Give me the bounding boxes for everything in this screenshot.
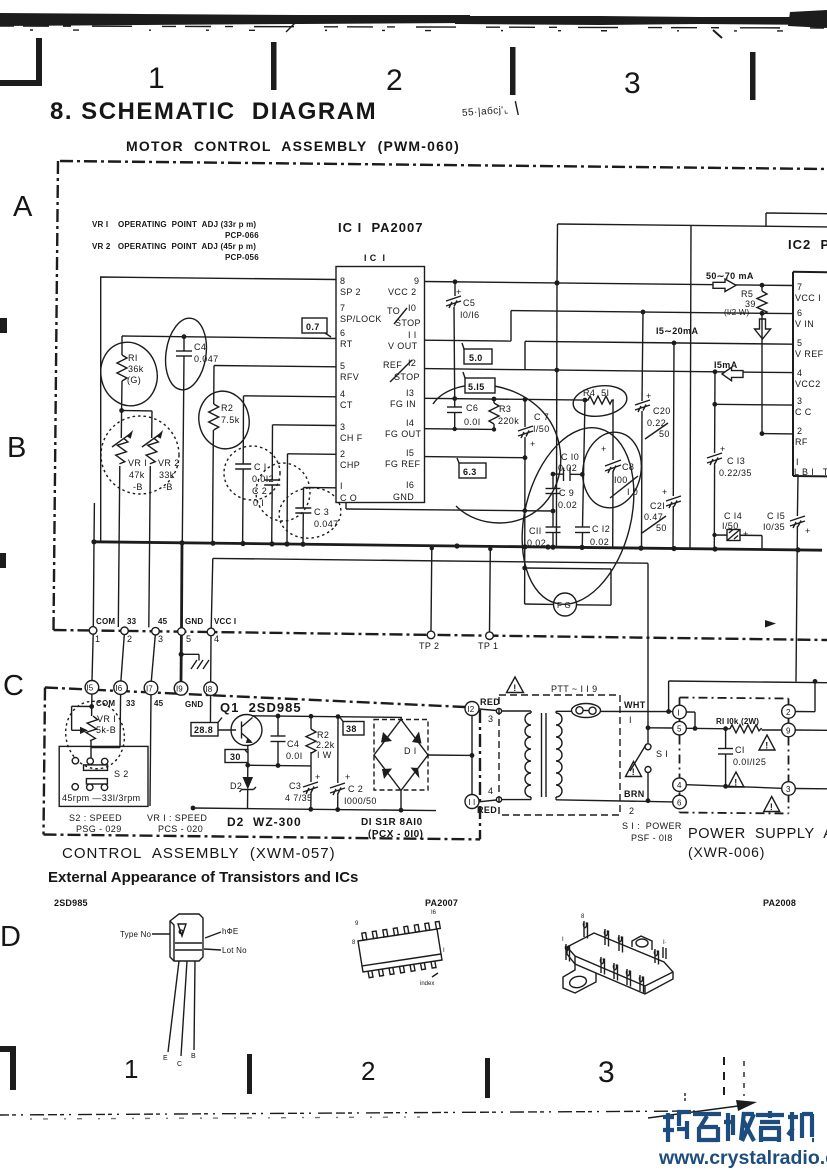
svg-text:1: 1: [148, 62, 165, 95]
svg-text:RED: RED: [480, 697, 500, 707]
svg-text:STOP: STOP: [395, 318, 421, 328]
svg-text:(G): (G): [127, 375, 141, 385]
svg-text:PCP-056: PCP-056: [225, 253, 259, 262]
svg-text:2: 2: [386, 64, 403, 97]
capacitor C9 0.02: [546, 474, 578, 511]
svg-text:0.I: 0.I: [253, 498, 264, 508]
warning symbol below C1: [728, 772, 744, 788]
svg-text:9: 9: [355, 921, 359, 927]
svg-text:3: 3: [786, 785, 791, 794]
wire pin 5 RFV to R2: [214, 366, 336, 367]
svg-text:TO: TO: [387, 306, 400, 316]
wire pin 4 CT to C1: [244, 396, 337, 397]
svg-text:CІ: CІ: [735, 745, 745, 755]
svg-text:(I/2 W): (I/2 W): [724, 308, 750, 317]
svg-text:47k: 47k: [129, 470, 145, 480]
svg-text:I5: I5: [406, 448, 414, 458]
wire terminal 1 into box: [686, 712, 697, 731]
svg-text:4: 4: [677, 781, 682, 790]
current arrow 50~70mA: [706, 271, 754, 292]
svg-text:C8: C8: [622, 462, 634, 472]
wire PWM-060 assembly boundary left: [54, 161, 59, 630]
capacitor C4 0.047: [176, 334, 219, 542]
svg-text:2.2k: 2.2k: [316, 740, 335, 750]
svg-text:2: 2: [786, 708, 791, 717]
wire control assembly boundary left: [44, 688, 46, 835]
flag label 6.3 on FG REF wire: [457, 458, 486, 478]
ellipse loop around C8: [577, 428, 647, 513]
svg-text:7: 7: [340, 303, 345, 313]
svg-text:!: !: [734, 778, 737, 788]
svg-text:I000/50: I000/50: [344, 796, 377, 806]
svg-text:VR I: VR I: [128, 458, 147, 468]
svg-text:4: 4: [488, 786, 493, 796]
svg-text:D I: D I: [404, 746, 417, 756]
diode D2 WZ-300 zener: [230, 765, 256, 808]
node terminal 4: [673, 778, 687, 792]
svg-text:I C I: I C I: [364, 253, 385, 263]
flag label 0.7 on RT wire: [302, 318, 331, 337]
switch S1 power: [630, 563, 673, 801]
node pin 17: [144, 681, 158, 695]
wire TP1 to ground bus: [489, 549, 492, 632]
svg-text:55·|абсјʹ⌞: 55·|абсјʹ⌞: [462, 104, 510, 119]
svg-text:6: 6: [340, 328, 345, 338]
wire 33 column pin2 to pin 16: [121, 635, 124, 681]
svg-text:RІ: RІ: [128, 353, 138, 363]
ellipse loop around C4: [161, 316, 211, 393]
svg-text:RED: RED: [477, 805, 497, 815]
svg-text:C3: C3: [289, 781, 301, 791]
wire PWM-060 assembly boundary top: [60, 161, 827, 169]
svg-text:3: 3: [624, 67, 641, 100]
wire control assembly boundary bottom: [44, 835, 481, 840]
capacitor C20 0.22/50: [635, 312, 671, 548]
svg-text:S I : POWER: S I : POWER: [622, 821, 682, 831]
potentiometer VR1 5k-B: [72, 694, 117, 757]
svg-text:7.5k: 7.5k: [221, 415, 240, 425]
capacitor C21 0.47/50: [642, 343, 681, 549]
svg-text:2SD985: 2SD985: [54, 898, 88, 908]
capacitor C4 0.01: [271, 716, 303, 766]
wire upper right rail: [766, 213, 827, 226]
svg-text:0.0I: 0.0I: [286, 751, 303, 761]
svg-text:C4: C4: [194, 342, 206, 352]
svg-text:Lot No: Lot No: [222, 946, 247, 955]
flag label 5.15 on REF/STOP wire: [463, 372, 495, 393]
svg-text:R2: R2: [221, 403, 233, 413]
node connector pin 4 VCC1: [207, 628, 215, 636]
node terminal 12: [465, 702, 479, 716]
svg-text:E: E: [163, 1055, 168, 1062]
svg-text:R5: R5: [741, 289, 753, 299]
svg-text:PSF - 0I8: PSF - 0I8: [631, 833, 673, 843]
node TP1 test point: [486, 632, 494, 640]
ellipse loop around C1: [224, 446, 280, 500]
transformer T1 primary winding: [502, 711, 531, 800]
capacitor C14 1/50: [712, 511, 762, 550]
node pin 19: [174, 682, 188, 696]
svg-text:SP 2: SP 2: [340, 287, 361, 297]
svg-text:+: +: [601, 444, 607, 454]
flag label 28.8: [191, 718, 222, 737]
resistor R2 7.5k: [209, 366, 240, 544]
ellipse loop around FG capacitors: [505, 416, 651, 616]
ellipse loop around VR1: [59, 695, 132, 775]
svg-text:S 2: S 2: [114, 769, 129, 779]
svg-text:33k: 33k: [159, 470, 175, 480]
svg-text:2: 2: [361, 1056, 375, 1086]
wire pin 2 CHP to bus: [287, 454, 336, 544]
wire from GND corner to IC1 pin 8 SP2: [101, 277, 336, 542]
resistor R1 36k: [117, 336, 144, 411]
wire VCC2 rail to IC2 pin 4: [525, 370, 793, 373]
svg-text:FG IN: FG IN: [390, 399, 416, 409]
svg-text:PA2008: PA2008: [763, 898, 796, 908]
svg-text:RІ I0k (2W): RІ I0k (2W): [716, 717, 759, 726]
capacitor C11 0.02: [527, 511, 561, 548]
transistor Q1 2SD985: [220, 700, 302, 765]
svg-text:External Appearance of Transis: External Appearance of Transistors and I…: [48, 869, 358, 886]
wire control assembly boundary right: [479, 710, 481, 839]
svg-text:45: 45: [154, 699, 164, 708]
svg-text:0.0I/I25: 0.0I/I25: [733, 757, 766, 767]
ellipse loop around VR1 VR2: [101, 416, 179, 494]
svg-text:30: 30: [230, 752, 241, 762]
package drawing 2SD985: [120, 914, 247, 1068]
fuse F1 on white lead: [572, 704, 601, 718]
svg-text:220k: 220k: [498, 416, 519, 426]
svg-text:PA2007: PA2007: [425, 898, 458, 908]
capacitor C2 0.1: [252, 425, 280, 544]
svg-text:-B: -B: [133, 482, 143, 492]
wire FG OUT net pin 14 to R3: [425, 428, 495, 431]
net label WHT pin 1: [624, 700, 646, 725]
node pin 15: [85, 681, 99, 695]
svg-text:S2 : SPEED: S2 : SPEED: [69, 813, 122, 823]
svg-text:I0/35: I0/35: [763, 522, 785, 532]
svg-text:28.8: 28.8: [194, 725, 213, 735]
svg-text:3: 3: [488, 714, 493, 724]
capacitor C10 0.02: [551, 452, 585, 481]
svg-text:VCC2: VCC2: [795, 379, 821, 389]
svg-text:38: 38: [346, 724, 357, 734]
capacitor C3 47/35: [285, 766, 321, 809]
capacitor C1 0.01/125: [718, 726, 766, 788]
wire FG line below IC1: [346, 503, 555, 514]
svg-text:I·: I·: [663, 940, 667, 946]
svg-text:!: !: [632, 767, 635, 777]
node TP2 test point: [427, 631, 435, 639]
svg-text:5: 5: [677, 725, 682, 734]
svg-text:5.I5: 5.I5: [468, 382, 485, 392]
flag label 30: [225, 750, 248, 763]
svg-text:33: 33: [126, 699, 136, 708]
wire top rail from node to right: [556, 224, 827, 547]
svg-text:C I4: C I4: [724, 511, 742, 521]
svg-text:L B I T: L B I T: [794, 467, 827, 477]
node connector pin 1 COM: [89, 627, 97, 635]
svg-text:I0/I6: I0/I6: [460, 310, 480, 320]
node terminal 5: [673, 721, 687, 735]
svg-text:!: !: [513, 683, 516, 693]
svg-text:+: +: [720, 444, 726, 454]
svg-text:8: 8: [352, 940, 356, 946]
capacitor C1 0.012: [235, 396, 274, 544]
svg-text:C C: C C: [795, 407, 812, 417]
svg-text:I: I: [629, 715, 632, 725]
capacitor C15 10/35: [763, 476, 811, 681]
rectifier D1 S1R8A10 bridge: [374, 717, 472, 810]
svg-text:3: 3: [598, 1056, 615, 1089]
warning symbol bottom right: [764, 797, 780, 813]
svg-text:(XWR-006): (XWR-006): [688, 844, 765, 860]
svg-text:FG OUT: FG OUT: [385, 429, 421, 439]
wire V REF net to IC2 pin 5: [525, 341, 793, 344]
node terminal 9: [782, 723, 796, 737]
svg-text:R3: R3: [499, 404, 511, 414]
svg-text:4: 4: [340, 389, 345, 399]
wire terminal 4 to terminal 3: [686, 785, 781, 789]
svg-text:RFV: RFV: [340, 372, 359, 382]
svg-text:I7: I7: [146, 684, 153, 693]
svg-text:1: 1: [124, 1054, 138, 1084]
ellipse loop around R1: [94, 336, 164, 412]
wire VCC2 net from IC1 pin 9 to IC2 pin 7: [425, 282, 794, 286]
wire VCC1 rail: [211, 558, 648, 682]
svg-text:VR I: VR I: [97, 714, 116, 724]
svg-text:I I: I I: [469, 798, 476, 807]
warning symbol near transformer: [507, 677, 524, 693]
svg-text:+: +: [456, 287, 462, 297]
svg-text:CHP: CHP: [340, 460, 360, 470]
svg-text:Q1 2SD985: Q1 2SD985: [220, 700, 302, 715]
svg-text:V OUT: V OUT: [388, 341, 418, 351]
wire BRN lead: [556, 789, 672, 816]
wire pin 3 CHF to C2: [273, 424, 337, 427]
wire AC link terminals 12-11: [470, 716, 475, 795]
warning symbol near S1: [626, 762, 642, 778]
svg-text:CONTROL ASSEMBLY (XWM-057): CONTROL ASSEMBLY (XWM-057): [62, 845, 336, 862]
wire V OUT net pin 11: [425, 311, 512, 342]
svg-text:A: A: [13, 191, 33, 223]
svg-text:IC I PA2007: IC I PA2007: [338, 220, 423, 235]
svg-text:I8: I8: [206, 685, 213, 694]
node connector pin 2 (33): [121, 627, 129, 635]
svg-text:C5: C5: [463, 298, 475, 308]
capacitor C13 0.22/35: [707, 372, 752, 549]
svg-text:S I: S I: [656, 749, 668, 759]
node pin 18: [204, 682, 218, 696]
svg-text:C I0: C I0: [561, 452, 579, 462]
svg-text:PCS - 020: PCS - 020: [158, 824, 203, 834]
svg-text:50∼70 mA: 50∼70 mA: [706, 271, 754, 281]
capacitor C2 1000/50: [330, 717, 377, 810]
current arrow 15~20mA: [656, 319, 771, 339]
svg-text:CT: CT: [340, 400, 353, 410]
svg-text:index: index: [420, 981, 434, 987]
svg-text:0.22/35: 0.22/35: [719, 468, 752, 478]
svg-text:I: I: [678, 709, 680, 718]
svg-text:I9: I9: [176, 685, 183, 694]
ellipse loop around R4: [571, 382, 629, 419]
svg-text:D2 WZ-300: D2 WZ-300: [227, 815, 302, 829]
wire pin 18 to Q1 base: [210, 696, 236, 731]
wire column below R5 to RF pin: [760, 313, 793, 436]
svg-text:0.02: 0.02: [558, 500, 577, 510]
wire R1 bottom to VR2 top: [122, 410, 152, 412]
svg-text:!: !: [765, 741, 768, 751]
svg-text:I W: I W: [317, 750, 332, 760]
svg-text:6: 6: [677, 799, 682, 808]
wire column to bus: [690, 225, 691, 548]
svg-text:I5: I5: [87, 684, 94, 693]
svg-text:MOTOR CONTROL ASSEMBLY (PWM: MOTOR CONTROL ASSEMBLY (PWM-060): [126, 138, 460, 154]
svg-text:V REF: V REF: [795, 349, 824, 359]
wire Q1 emitter rail: [245, 763, 311, 768]
ellipse loop around C6 R3 C7: [433, 385, 561, 523]
svg-text:8. SCHEMATIC DIAGRAM: 8. SCHEMATIC DIAGRAM: [50, 98, 377, 125]
svg-text:I0: I0: [408, 303, 416, 313]
wire terminal 9 output: [795, 729, 827, 731]
svg-text:3: 3: [158, 634, 163, 644]
svg-text:FG REF: FG REF: [385, 459, 421, 469]
wire V IN net to IC2 pin 6: [511, 311, 793, 314]
svg-text:I: I: [562, 937, 564, 943]
svg-text:WHT: WHT: [624, 700, 646, 710]
resistor R1 10k (2W): [686, 717, 781, 733]
svg-text:0.0I: 0.0I: [464, 417, 481, 427]
svg-text:4: 4: [214, 634, 219, 644]
svg-text:I6: I6: [116, 684, 123, 693]
svg-text:+: +: [743, 529, 749, 539]
svg-text:I5mA: I5mA: [714, 360, 738, 370]
flag label 5.0 on V OUT wire: [462, 343, 492, 364]
capacitor C12 0.02: [575, 400, 610, 547]
svg-text:I4: I4: [406, 418, 414, 428]
resistor R3 220k: [489, 399, 519, 429]
wire CC net to IC2 pin 3: [712, 402, 793, 407]
current arrow 15mA: [714, 360, 743, 381]
transformer PTT-119 boundary: [499, 695, 620, 815]
svg-text:+: +: [345, 772, 351, 782]
svg-text:C: C: [3, 670, 24, 702]
node connector pin 5 GND: [178, 628, 186, 636]
svg-text:RT: RT: [340, 339, 353, 349]
svg-text:9: 9: [786, 727, 791, 736]
svg-text:BRN: BRN: [624, 789, 645, 799]
svg-text:TP 2: TP 2: [419, 641, 439, 651]
svg-text:2: 2: [127, 634, 132, 644]
label S1 POWER PSF-018: [622, 821, 682, 843]
svg-text:VR 2 OPERATING POINT ADJ (: VR 2 OPERATING POINT ADJ (45r p m): [92, 242, 256, 251]
svg-text:GND: GND: [185, 617, 203, 626]
svg-text:GND: GND: [185, 700, 203, 709]
svg-text:+: +: [646, 391, 652, 401]
svg-text:C 3: C 3: [314, 507, 329, 517]
svg-text:7: 7: [797, 282, 802, 292]
svg-text:CH F: CH F: [340, 433, 363, 443]
svg-text:8: 8: [340, 276, 345, 286]
wire 45 column into speed box: [150, 695, 151, 806]
svg-text:33: 33: [127, 617, 137, 626]
svg-text:PSG - 029: PSG - 029: [76, 824, 122, 834]
svg-text:C I2: C I2: [592, 524, 610, 534]
svg-text:I5∼20mA: I5∼20mA: [656, 326, 698, 336]
package drawing PA2008 power module: [562, 914, 673, 994]
svg-text:1: 1: [95, 634, 100, 644]
svg-text:CІI: CІI: [529, 526, 542, 536]
transformer T1 core: [542, 713, 547, 797]
wire terminal 2 up to return rail: [795, 679, 817, 712]
node terminal 1: [673, 705, 687, 719]
svg-text:!: !: [770, 802, 773, 812]
svg-text:SP/LOCK: SP/LOCK: [340, 314, 382, 324]
svg-text:I/50: I/50: [722, 521, 739, 531]
svg-text:3: 3: [340, 422, 345, 432]
node terminal 2: [782, 705, 796, 719]
ground bus (thick): [94, 542, 822, 550]
svg-text:2: 2: [797, 426, 802, 436]
warning symbol near terminal 9: [759, 735, 775, 751]
svg-text:DІ S1R 8AІ0: DІ S1R 8AІ0: [361, 817, 423, 828]
wire COM column pin1 to pin 15: [92, 634, 93, 680]
svg-text:POWER SUPPLY A: POWER SUPPLY A: [688, 826, 827, 842]
wire WHT node up to IC2 return rail: [666, 681, 827, 714]
svg-text:C 2: C 2: [348, 784, 363, 794]
wire PWM-060 assembly boundary bottom with connector row: [54, 630, 827, 640]
svg-text:I: I: [340, 481, 343, 491]
capacitor C7 1/50: [518, 399, 550, 568]
svg-text:6.3: 6.3: [463, 467, 477, 477]
junction dots on ground bus: [91, 539, 96, 544]
svg-text:(PCX - 0I0): (PCX - 0I0): [368, 829, 424, 840]
svg-text:IC2 P: IC2 P: [788, 237, 827, 252]
svg-text:I: I: [443, 948, 445, 954]
svg-text:B: B: [191, 1053, 196, 1060]
svg-text:6: 6: [797, 308, 802, 318]
switch S2 speed selector: [59, 746, 148, 806]
svg-text:8: 8: [581, 914, 585, 920]
svg-text:TP 1: TP 1: [478, 641, 498, 651]
svg-text:F G: F G: [557, 601, 571, 610]
wire FG REF net pin 15: [425, 457, 526, 458]
svg-text:hФЕ: hФЕ: [222, 927, 238, 936]
svg-text:PCP-066: PCP-066: [225, 231, 259, 240]
wire COM column from bus to connector pin 1: [92, 542, 95, 627]
IC U2 (IC2 PA2008) body: [788, 237, 827, 476]
svg-text:36k: 36k: [128, 364, 144, 374]
svg-text:50: 50: [659, 429, 670, 439]
svg-text:I3: I3: [406, 388, 414, 398]
svg-text:B: B: [7, 432, 26, 464]
wire RED lead to transformer pin 4: [477, 786, 502, 815]
node terminal 11: [465, 795, 479, 809]
capacitor C6 0.01: [447, 399, 481, 429]
svg-text:0.0I2: 0.0I2: [252, 474, 274, 484]
node terminal 6: [673, 795, 687, 809]
svg-text:5.0: 5.0: [469, 353, 483, 363]
resistor R5 39 (1/2W): [724, 285, 767, 317]
svg-text:4 7/35: 4 7/35: [285, 793, 312, 803]
svg-text:45rpm —33І/3rpm: 45rpm —33І/3rpm: [62, 793, 141, 803]
ellipse loop around R2: [194, 386, 255, 453]
variable resistor VR1 47k-B: [112, 411, 147, 628]
svg-text:VCC I: VCC I: [795, 293, 821, 303]
wire emitter ground rail: [191, 806, 436, 813]
ellipse loop around C2: [256, 463, 310, 521]
node terminal 3: [782, 782, 796, 796]
